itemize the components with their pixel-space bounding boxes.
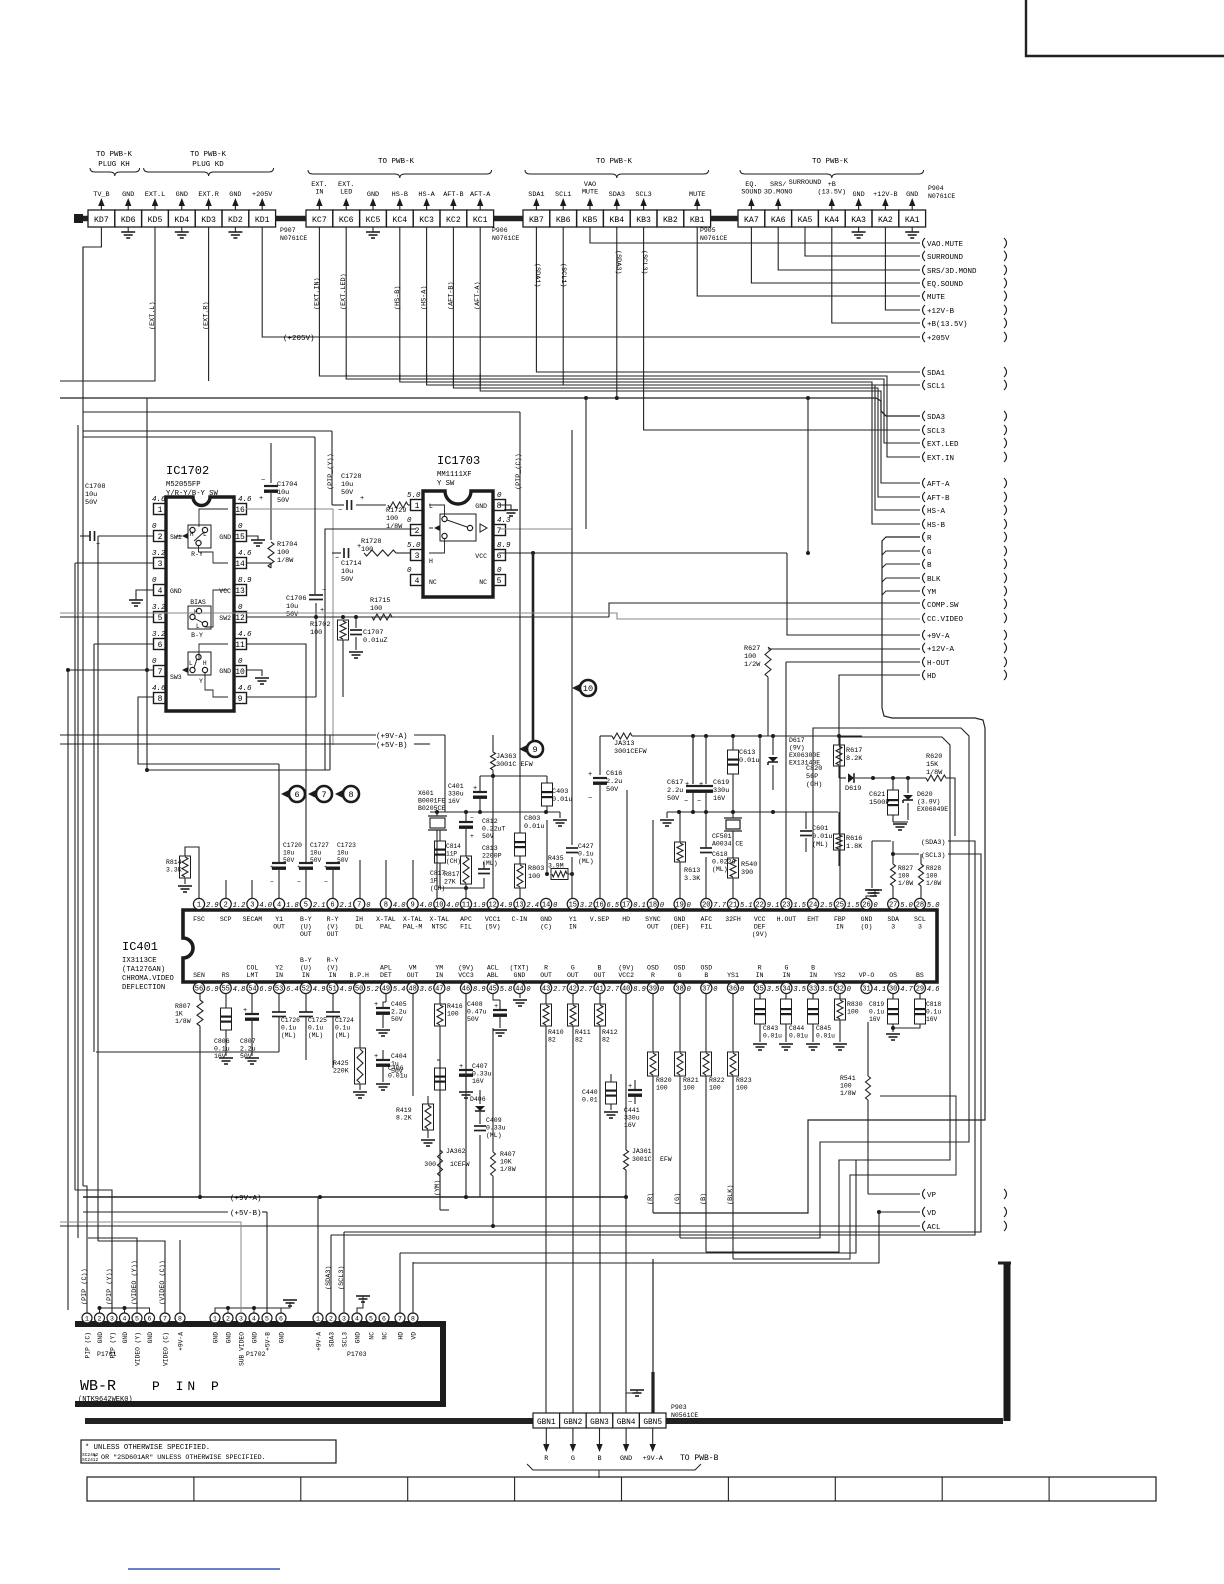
svg-text:100: 100 — [840, 1083, 852, 1090]
svg-text:YS1: YS1 — [727, 972, 739, 979]
svg-text:KB1: KB1 — [690, 216, 705, 225]
svg-text:(+5V-B): (+5V-B) — [230, 1210, 262, 1218]
svg-text:0.01u: 0.01u — [763, 1033, 782, 1040]
svg-text:SURROUND: SURROUND — [789, 179, 822, 187]
svg-text:ACL: ACL — [487, 965, 499, 972]
IC401 pin 5 B-Y (U) OUT — [300, 898, 311, 909]
svg-text:(9V): (9V) — [618, 965, 634, 972]
svg-text:9: 9 — [238, 695, 243, 704]
svg-text:+205V: +205V — [927, 335, 950, 343]
svg-text:R822: R822 — [709, 1077, 725, 1084]
svg-text:0.1u: 0.1u — [869, 1009, 884, 1016]
svg-text:82: 82 — [548, 1037, 556, 1044]
svg-text:OUT: OUT — [407, 972, 419, 979]
svg-text:Y SW: Y SW — [437, 480, 455, 488]
svg-text:82: 82 — [575, 1037, 583, 1044]
connector P907 KD7-KD1 — [88, 210, 115, 227]
blue underline bottom left — [128, 1568, 280, 1570]
svg-text:2.7: 2.7 — [607, 986, 620, 994]
svg-text:C440: C440 — [582, 1089, 598, 1096]
net stub HS-B — [923, 519, 926, 529]
left page edge lines — [59, 380, 61, 382]
top link y776 — [480, 775, 547, 777]
svg-text:100: 100 — [277, 549, 289, 557]
svg-text:+: + — [360, 495, 364, 503]
IC401 pin 17 HD — [621, 898, 632, 909]
svg-text:R425: R425 — [333, 1060, 349, 1067]
svg-text:GND: GND — [279, 1332, 286, 1344]
svg-text:8: 8 — [158, 695, 163, 704]
svg-text:KD4: KD4 — [174, 216, 189, 225]
svg-text:0.1u: 0.1u — [335, 1025, 350, 1032]
svg-text:EFW: EFW — [660, 1156, 672, 1163]
svg-text:GND: GND — [620, 1455, 632, 1463]
svg-text:R1715: R1715 — [370, 597, 390, 605]
svg-text:R-Y: R-Y — [327, 916, 339, 923]
svg-text:KD1: KD1 — [255, 216, 270, 225]
circled tag 10 — [572, 684, 581, 693]
svg-text:C618: C618 — [712, 851, 728, 858]
svg-text:2.2u: 2.2u — [606, 778, 622, 786]
svg-text:SC2412: SC2412 — [82, 1457, 99, 1463]
svg-text:(13.5V): (13.5V) — [818, 189, 847, 197]
net stub H-OUT — [923, 657, 926, 667]
svg-text:(ML): (ML) — [281, 1032, 296, 1039]
svg-text:11: 11 — [462, 902, 470, 910]
wire TV_B from KD7 — [83, 227, 101, 381]
svg-text:(R): (R) — [647, 1193, 655, 1205]
wire (HS-B) from KC4 — [399, 227, 401, 380]
svg-text:NC: NC — [369, 1332, 376, 1340]
net stub +9V-A — [923, 630, 926, 640]
net stub EXT.IN — [923, 452, 926, 462]
svg-text:1/2W: 1/2W — [744, 661, 761, 669]
svg-text:C1704: C1704 — [277, 481, 297, 489]
resistor R827 100 1/8W — [891, 864, 896, 886]
svg-text:46: 46 — [462, 986, 470, 994]
svg-text:VIDEO (Y): VIDEO (Y) — [135, 1332, 142, 1366]
svg-text:VP: VP — [927, 1192, 937, 1200]
cap C1704 10u 50V — [270, 443, 272, 483]
svg-text:1.5: 1.5 — [847, 902, 860, 910]
svg-text:−: − — [684, 798, 688, 806]
svg-text:39: 39 — [649, 986, 657, 994]
svg-text:0: 0 — [687, 986, 691, 994]
svg-text:6.5: 6.5 — [607, 902, 620, 910]
svg-text:10: 10 — [435, 902, 443, 910]
svg-text:KA2: KA2 — [878, 216, 893, 225]
svg-text:4.9: 4.9 — [340, 986, 353, 994]
svg-text:L: L — [203, 531, 207, 538]
svg-text:APL: APL — [380, 965, 392, 972]
svg-text:0: 0 — [847, 986, 851, 994]
svg-text:C601: C601 — [812, 825, 828, 833]
IC401 pin 10 X-TAL NTSC — [434, 898, 445, 909]
svg-text:0.01: 0.01 — [582, 1097, 598, 1104]
svg-text:IN: IN — [275, 972, 283, 979]
svg-text:P906: P906 — [492, 227, 508, 234]
ground under C621 D620 — [892, 815, 894, 822]
svg-text:NC: NC — [429, 579, 437, 586]
svg-text:EX06049E: EX06049E — [917, 806, 948, 813]
svg-text:330u: 330u — [713, 787, 729, 795]
svg-text:−: − — [697, 798, 701, 806]
svg-text:GBN3: GBN3 — [590, 1419, 609, 1427]
svg-text:R419: R419 — [396, 1107, 412, 1114]
rail +5V-B label — [60, 743, 376, 745]
IC401 pin 41 B OUT — [594, 982, 605, 993]
svg-text:16V: 16V — [472, 1078, 484, 1085]
svg-text:4.8: 4.8 — [233, 986, 246, 994]
svg-text:8.2K: 8.2K — [396, 1115, 412, 1122]
svg-text:(+9V-A): (+9V-A) — [376, 733, 408, 741]
svg-text:0: 0 — [152, 523, 157, 531]
wire (EXT.LED) from KC6 — [345, 227, 347, 376]
svg-text:9: 9 — [410, 902, 414, 910]
svg-text:300: 300 — [424, 1161, 436, 1168]
svg-text:10u: 10u — [310, 850, 322, 857]
svg-text:37: 37 — [702, 986, 710, 994]
svg-text:C817: C817 — [430, 870, 445, 877]
svg-text:R: R — [544, 1455, 548, 1463]
HD VD wires from right — [399, 1253, 401, 1313]
svg-text:IN: IN — [302, 972, 310, 979]
svg-text:56P: 56P — [806, 773, 818, 781]
svg-text:5.0: 5.0 — [927, 902, 940, 910]
svg-text:JA362: JA362 — [446, 1148, 466, 1155]
svg-text:C819: C819 — [869, 1001, 884, 1008]
P1703 ground — [357, 1296, 363, 1313]
svg-text:KC5: KC5 — [366, 216, 381, 225]
svg-text:B: B — [704, 972, 708, 979]
svg-text:FBP: FBP — [834, 916, 846, 923]
svg-text:100: 100 — [736, 1085, 748, 1092]
svg-text:VCC1: VCC1 — [485, 916, 501, 923]
svg-text:(5V): (5V) — [485, 924, 501, 931]
IC401 pin 45 ACL ABL — [487, 982, 498, 993]
svg-text:B-Y: B-Y — [191, 632, 203, 639]
svg-text:(+9V-A): (+9V-A) — [230, 1195, 262, 1203]
svg-text:1: 1 — [85, 1316, 89, 1323]
rail +9V-A bottom — [83, 1196, 626, 1198]
cap C621 1500P — [892, 778, 894, 790]
IC401 pin 33 B IN — [808, 982, 819, 993]
svg-text:SDA: SDA — [887, 916, 899, 923]
svg-text:14: 14 — [235, 560, 245, 569]
svg-text:P905: P905 — [700, 227, 716, 234]
IC401 pin 22 VCC DEF (9V) — [754, 898, 765, 909]
svg-text:8: 8 — [411, 1316, 415, 1323]
cap C601 0.01u ML — [805, 812, 807, 829]
IC401 pin 11 APC FIL — [460, 898, 471, 909]
svg-text:NC: NC — [382, 1332, 389, 1340]
svg-text:4.6: 4.6 — [927, 986, 940, 994]
svg-text:3: 3 — [918, 924, 922, 931]
svg-text:AFT-B: AFT-B — [443, 191, 463, 199]
svg-text:IN: IN — [836, 924, 844, 931]
svg-text:+9V-A: +9V-A — [178, 1332, 185, 1351]
svg-text:AFC: AFC — [700, 916, 712, 923]
svg-text:C813: C813 — [482, 845, 498, 852]
svg-text:GND: GND — [219, 668, 231, 675]
svg-text:SW3: SW3 — [170, 674, 182, 681]
IC1703 pin 4 — [411, 575, 424, 586]
svg-text:(SDA1): (SDA1) — [533, 263, 541, 287]
svg-text:10u: 10u — [337, 850, 349, 857]
svg-text:GND: GND — [122, 1332, 129, 1344]
svg-text:0.01u: 0.01u — [816, 1033, 835, 1040]
svg-text:(G): (G) — [674, 1193, 682, 1205]
svg-text:2.5: 2.5 — [820, 902, 833, 910]
svg-text:GND: GND — [475, 503, 487, 510]
svg-text:24: 24 — [809, 902, 817, 910]
svg-text:N0761CE: N0761CE — [700, 235, 727, 242]
svg-text:4.0: 4.0 — [420, 902, 433, 910]
resistor R803 100 — [515, 864, 526, 888]
svg-text:ACL: ACL — [927, 1224, 941, 1232]
svg-text:C427: C427 — [578, 843, 594, 850]
svg-text:−: − — [297, 879, 301, 886]
svg-text:IC1703: IC1703 — [437, 454, 480, 468]
IC1703 pin6 VCC wire — [499, 552, 787, 554]
svg-text:0: 0 — [687, 902, 691, 910]
svg-text:R: R — [651, 972, 655, 979]
svg-text:(DEF): (DEF) — [670, 924, 690, 931]
svg-text:X-TAL: X-TAL — [430, 916, 450, 923]
net stub EQ.SOUND — [923, 278, 926, 288]
svg-text:16V: 16V — [214, 1053, 226, 1060]
svg-text:2.4: 2.4 — [526, 902, 539, 910]
IC401 pin 51 R-Y (V) IN — [327, 982, 338, 993]
wire MUTE from KB1 — [697, 227, 920, 296]
svg-text:OUT: OUT — [540, 972, 552, 979]
svg-text:16V: 16V — [448, 798, 460, 805]
svg-text:HD: HD — [622, 916, 630, 923]
svg-text:(SCL3): (SCL3) — [921, 852, 945, 860]
svg-text:0.1u: 0.1u — [281, 1025, 296, 1032]
svg-text:(TA1276AN): (TA1276AN) — [122, 966, 165, 974]
svg-text:Y2: Y2 — [275, 965, 283, 972]
svg-text:8.9: 8.9 — [497, 542, 511, 550]
svg-text:(B): (B) — [700, 1193, 708, 1205]
jumper JA363 — [492, 735, 494, 752]
svg-text:4: 4 — [252, 1316, 256, 1323]
svg-text:10u: 10u — [341, 481, 353, 489]
horizontal y770 from x147 — [147, 769, 376, 771]
circled tag 9 — [519, 745, 528, 754]
wire SDA1 from KB7 — [536, 227, 920, 372]
+5V-B vertical into P1702 — [367, 1211, 369, 1213]
svg-text:P1701: P1701 — [97, 1351, 117, 1358]
svg-text:IN: IN — [569, 924, 577, 931]
svg-text:43: 43 — [542, 986, 550, 994]
IC1702 pin 1 — [154, 504, 167, 515]
svg-text:2: 2 — [329, 1316, 333, 1323]
svg-text:51: 51 — [328, 986, 336, 994]
svg-text:R435: R435 — [548, 855, 564, 862]
svg-text:1: 1 — [415, 502, 420, 511]
svg-text:2.2u: 2.2u — [391, 1009, 407, 1016]
svg-text:2.2u: 2.2u — [667, 787, 683, 795]
svg-text:R828: R828 — [926, 865, 941, 872]
IC401 pin 26 GND (O) — [861, 898, 872, 909]
revision table — [87, 1477, 1156, 1501]
svg-text:P907: P907 — [280, 227, 296, 234]
wire HD — [839, 675, 920, 745]
svg-text:VCC: VCC — [754, 916, 766, 923]
svg-text:50V: 50V — [606, 786, 619, 794]
IC1703 pin2 wire — [325, 529, 416, 770]
svg-text:3.5: 3.5 — [767, 986, 780, 994]
wires from KA pins to upper stubs — [751, 227, 920, 283]
svg-text:3001CEFW: 3001CEFW — [614, 748, 648, 756]
svg-text:CC.VIDEO: CC.VIDEO — [927, 616, 964, 624]
svg-text:IX3113CE: IX3113CE — [122, 957, 157, 965]
IC1702 pin 5 — [154, 612, 167, 623]
svg-text:(9V): (9V) — [789, 745, 805, 752]
svg-text:P903: P903 — [671, 1404, 687, 1411]
svg-text:4.6: 4.6 — [238, 685, 252, 693]
svg-text:0.22uT: 0.22uT — [482, 826, 506, 833]
svg-text:390: 390 — [741, 869, 753, 877]
svg-text:2200P: 2200P — [482, 853, 502, 860]
svg-text:COMP.SW: COMP.SW — [927, 602, 959, 610]
svg-text:(PIP_(C)): (PIP_(C)) — [515, 453, 523, 490]
connector P904 KA7-KA1 — [738, 210, 765, 227]
svg-text:SYNC: SYNC — [645, 916, 661, 923]
svg-text:G: G — [927, 549, 932, 557]
thick right angle bar — [998, 1262, 1011, 1265]
svg-text:0: 0 — [238, 658, 243, 666]
svg-text:56: 56 — [195, 986, 203, 994]
svg-text:EX06300E: EX06300E — [789, 752, 820, 759]
svg-text:−: − — [261, 477, 265, 485]
svg-text:10u: 10u — [341, 568, 353, 576]
svg-text:(CH): (CH) — [806, 781, 822, 789]
svg-text:C621: C621 — [869, 791, 885, 799]
svg-text:3.5: 3.5 — [820, 986, 833, 994]
svg-text:15: 15 — [235, 533, 245, 542]
svg-text:50V: 50V — [467, 1016, 479, 1023]
net stub MUTE — [923, 291, 926, 301]
svg-text:31: 31 — [862, 986, 870, 994]
svg-text:(HS-B): (HS-B) — [394, 286, 402, 310]
svg-text:SECAM: SECAM — [243, 916, 263, 923]
left wires from caps — [278, 1016, 280, 1052]
svg-text:7: 7 — [321, 790, 326, 800]
svg-text:9: 9 — [532, 745, 537, 755]
wire from y398 dot down x808 — [807, 398, 809, 553]
IC401 pin 36 YS1 — [727, 982, 738, 993]
resistor R416 100 — [435, 1004, 446, 1026]
svg-text:50V: 50V — [667, 795, 680, 803]
svg-text:4: 4 — [158, 587, 163, 596]
connector P1703 — [313, 1313, 323, 1323]
svg-text:100: 100 — [847, 1009, 859, 1016]
svg-text:(PIP_(C)): (PIP_(C)) — [81, 1268, 89, 1305]
IC1702 internal wires — [199, 509, 228, 527]
long thick bottom bus bar — [85, 1418, 533, 1424]
svg-text:X-TAL: X-TAL — [376, 916, 396, 923]
svg-text:R1728: R1728 — [361, 538, 381, 546]
svg-text:EXT.L: EXT.L — [145, 191, 165, 199]
cap C818 0.1u 16V — [915, 999, 926, 1024]
svg-text:YM: YM — [927, 589, 937, 597]
svg-text:4.0: 4.0 — [259, 902, 272, 910]
svg-text:TO PWB-K: TO PWB-K — [190, 151, 227, 159]
svg-text:0.01u: 0.01u — [812, 833, 832, 841]
svg-text:V.SEP: V.SEP — [590, 916, 610, 923]
IC1703 pin7 gray wire right — [499, 528, 572, 530]
svg-text:8: 8 — [348, 790, 353, 800]
IC401 pin 20 AFC FIL — [701, 898, 712, 909]
op-amp IC1703 MM1111XF Y SW — [423, 491, 493, 597]
svg-text:KA6: KA6 — [771, 216, 786, 225]
svg-text:KD7: KD7 — [94, 216, 109, 225]
svg-text:11P: 11P — [446, 851, 457, 858]
svg-text:GND: GND — [252, 1332, 259, 1344]
svg-text:45: 45 — [488, 986, 496, 994]
svg-text:OSD: OSD — [674, 965, 686, 972]
svg-text:KD6: KD6 — [121, 216, 136, 225]
svg-text:SDA3: SDA3 — [927, 414, 946, 422]
svg-text:LED: LED — [340, 189, 352, 197]
svg-text:10u: 10u — [286, 603, 298, 611]
IC1702 pin 12 — [234, 612, 247, 623]
svg-text:IN: IN — [315, 189, 323, 197]
svg-text:IC401: IC401 — [122, 940, 158, 954]
svg-text:TV_B: TV_B — [93, 191, 109, 199]
svg-text:PLUG KD: PLUG KD — [192, 161, 224, 169]
svg-text:16V: 16V — [869, 1016, 881, 1023]
svg-text:0.1u: 0.1u — [308, 1025, 323, 1032]
svg-text:GND: GND — [540, 916, 552, 923]
svg-text:DEFLECTION: DEFLECTION — [122, 984, 165, 992]
ground above pin26 — [866, 890, 875, 899]
svg-text:KC7: KC7 — [312, 216, 327, 225]
op-amp IC1702 M52055FP Y/R-Y/B-Y SW — [166, 497, 234, 711]
pin46 VCC3 wire to rail — [465, 994, 467, 1197]
svg-text:4.6: 4.6 — [152, 685, 166, 693]
svg-text:GBN4: GBN4 — [617, 1419, 636, 1427]
svg-text:21: 21 — [729, 902, 737, 910]
svg-text:(3.9V): (3.9V) — [917, 799, 940, 806]
svg-text:23: 23 — [782, 902, 790, 910]
svg-text:16V: 16V — [713, 795, 726, 803]
svg-text:OUT: OUT — [567, 972, 579, 979]
connector P906 KC7-KC1 — [306, 210, 333, 227]
diode D619 — [839, 777, 846, 779]
svg-text:PIP (C): PIP (C) — [85, 1332, 92, 1358]
wire COMP.SW jog — [609, 603, 920, 617]
net stub SDA1 — [923, 367, 926, 377]
svg-text:3: 3 — [158, 560, 163, 569]
svg-text:VAO.MUTE: VAO.MUTE — [927, 241, 964, 249]
svg-text:KC2: KC2 — [446, 216, 461, 225]
svg-text:M52055FP: M52055FP — [166, 481, 201, 489]
svg-text:(YM): (YM) — [434, 1180, 442, 1196]
svg-text:R627: R627 — [744, 645, 760, 653]
svg-text:34: 34 — [782, 986, 790, 994]
svg-text:OUT: OUT — [647, 924, 659, 931]
svg-text:C1714: C1714 — [341, 560, 361, 568]
svg-text:100: 100 — [898, 873, 910, 880]
svg-text:50V: 50V — [482, 833, 494, 840]
caps C843 C844 C845 0.01u — [755, 999, 766, 1024]
svg-text:PAL: PAL — [380, 924, 392, 931]
IC1702 pin 7 — [154, 666, 167, 677]
svg-text:6: 6 — [330, 902, 334, 910]
